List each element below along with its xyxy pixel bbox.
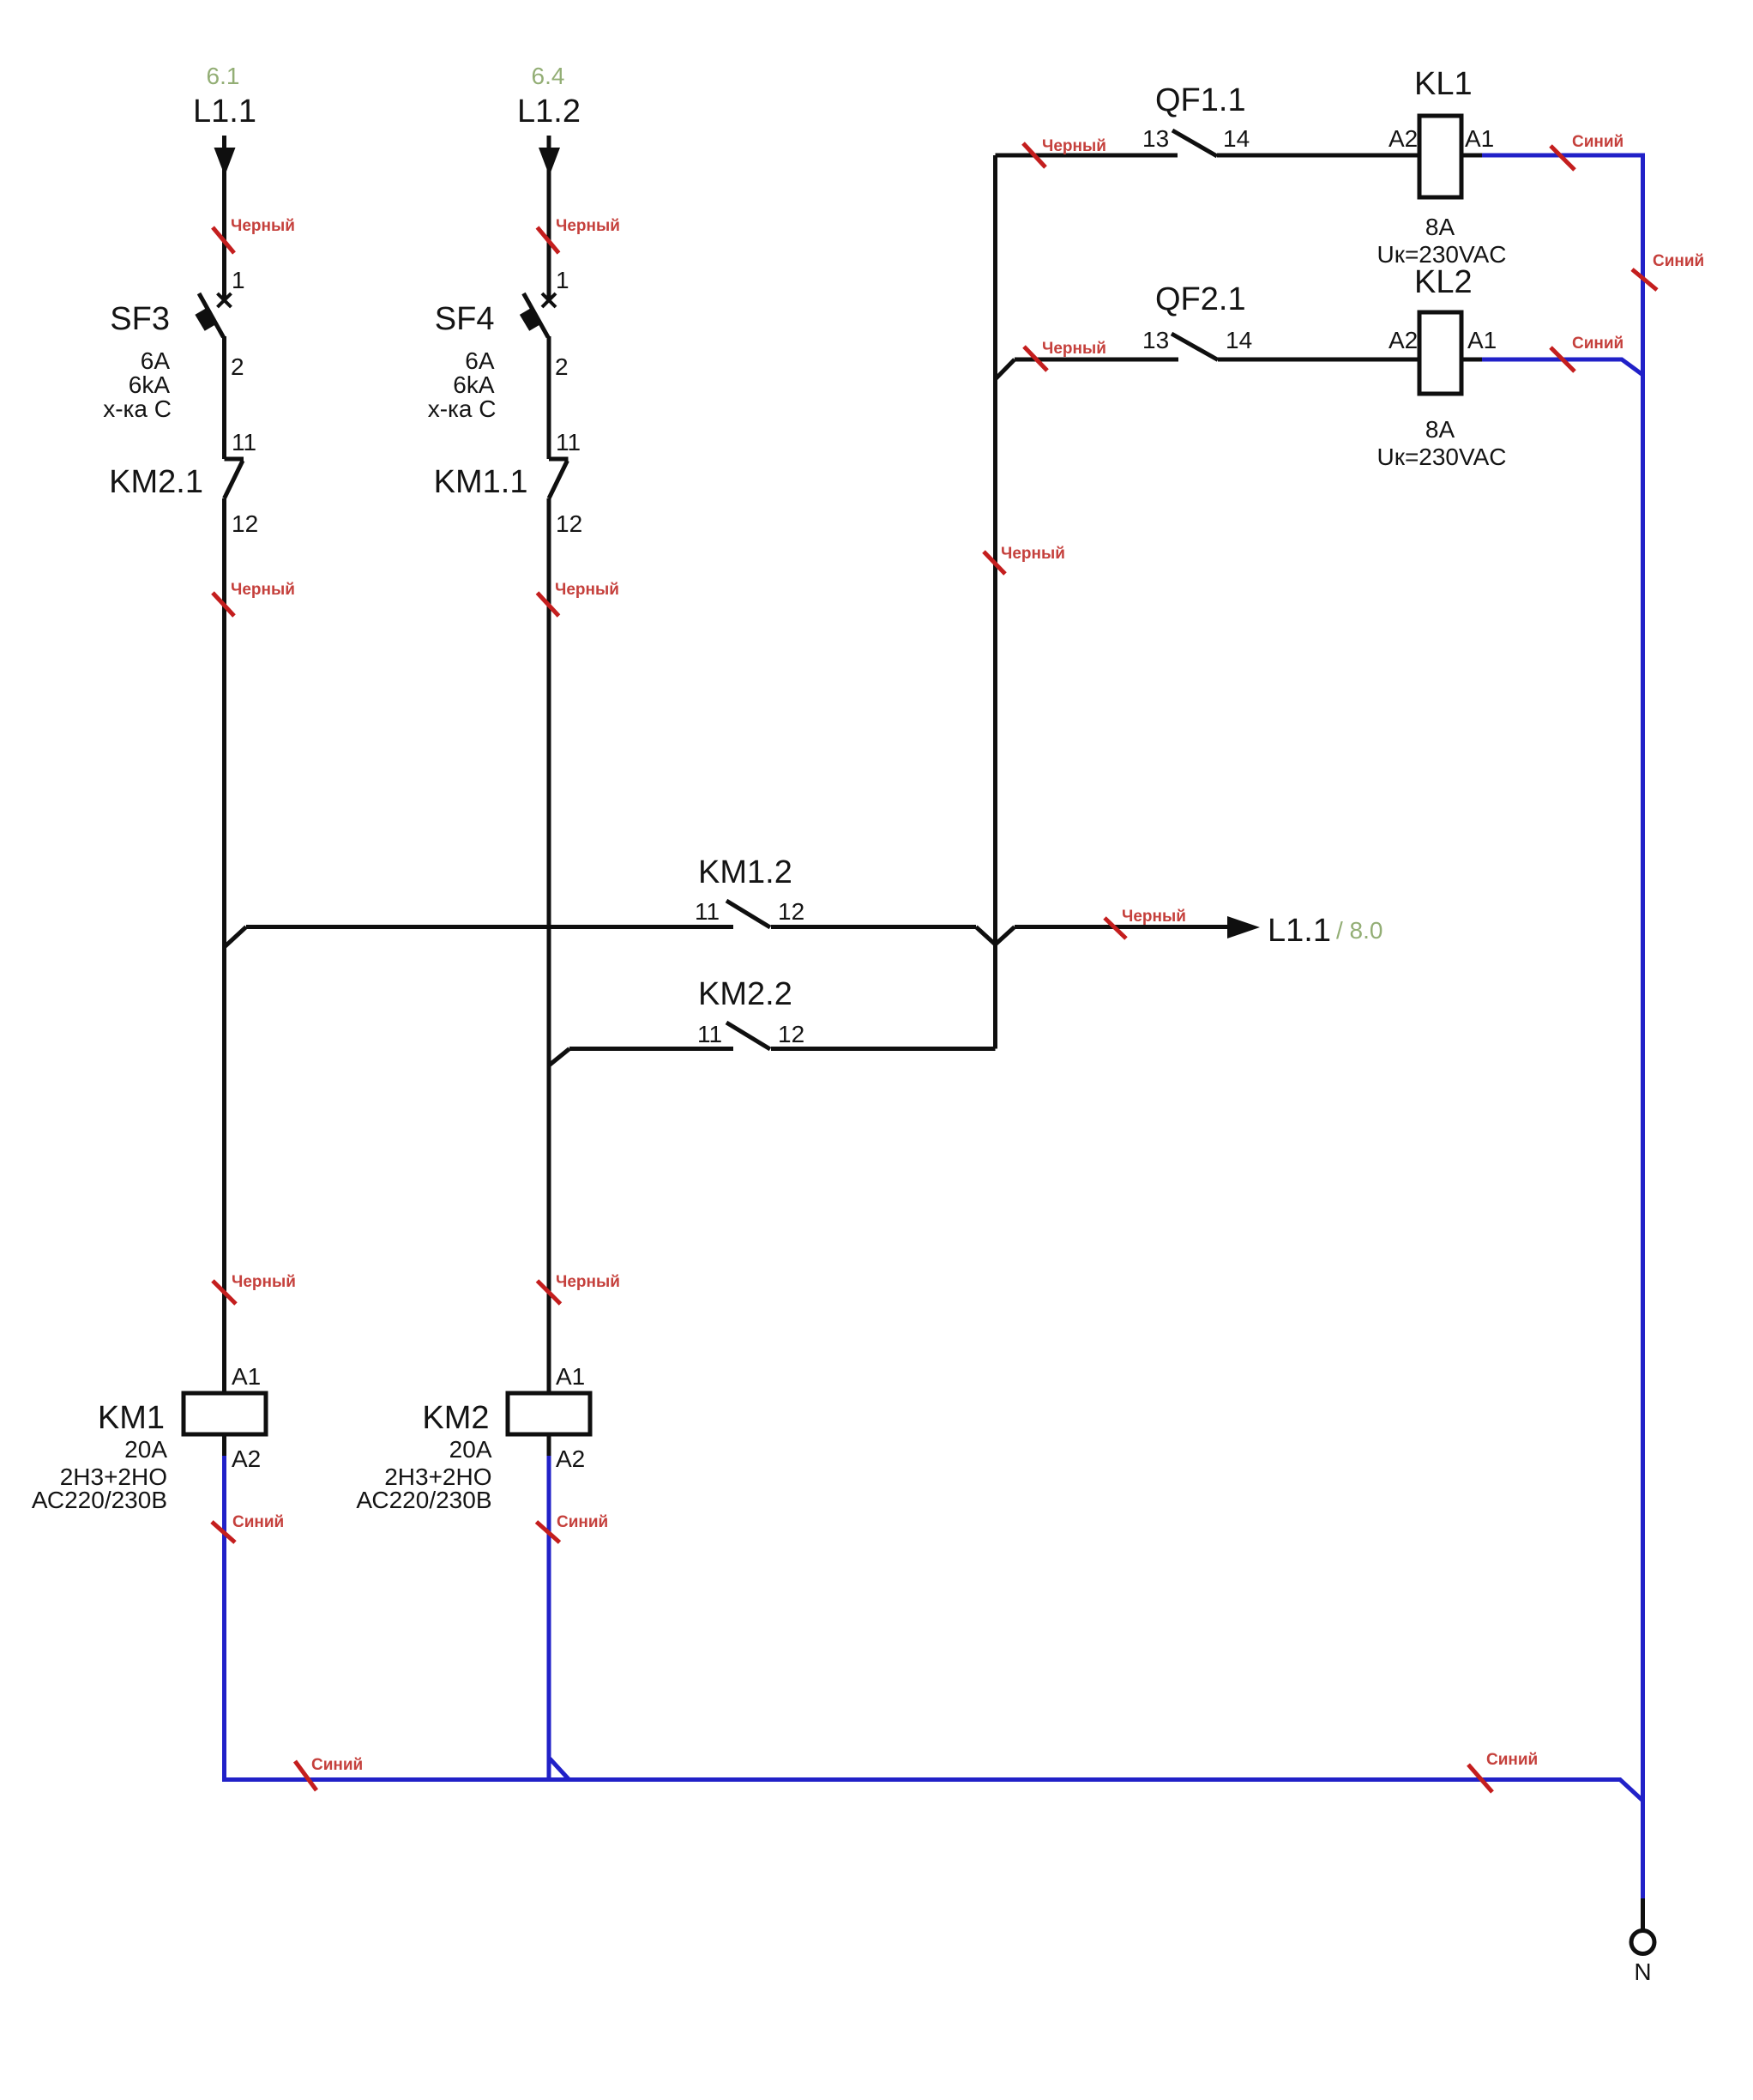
svg-text:Синий: Синий: [1653, 252, 1704, 270]
svg-text:Черный: Черный: [231, 581, 295, 599]
svg-text:х-ка С: х-ка С: [103, 395, 172, 422]
svg-text:QF1.1: QF1.1: [1155, 82, 1246, 118]
svg-text:Черный: Черный: [555, 581, 619, 599]
svg-text:13: 13: [1142, 327, 1169, 353]
svg-text:20A: 20A: [449, 1436, 492, 1463]
svg-text:Синий: Синий: [1572, 133, 1623, 151]
svg-text:Черный: Черный: [1001, 545, 1065, 563]
svg-text:SF3: SF3: [110, 301, 170, 337]
svg-text:6.1: 6.1: [207, 63, 240, 89]
svg-text:Черный: Черный: [1122, 908, 1186, 926]
svg-text:11: 11: [556, 429, 581, 456]
svg-text:L1.1: L1.1: [193, 94, 256, 130]
svg-text:Синий: Синий: [311, 1756, 363, 1774]
svg-text:13: 13: [1142, 125, 1169, 152]
svg-text:1: 1: [232, 267, 245, 293]
svg-text:A1: A1: [1465, 125, 1494, 152]
svg-text:KL2: KL2: [1414, 264, 1473, 300]
svg-text:х-ка С: х-ка С: [428, 395, 497, 422]
svg-text:11: 11: [695, 898, 720, 925]
svg-text:АС220/230В: АС220/230В: [32, 1487, 167, 1513]
svg-text:12: 12: [232, 510, 258, 537]
svg-text:A2: A2: [1389, 327, 1418, 353]
svg-text:14: 14: [1226, 327, 1252, 353]
svg-text:A1: A1: [232, 1363, 261, 1390]
svg-text:6kA: 6kA: [129, 371, 171, 398]
svg-text:12: 12: [556, 510, 582, 537]
svg-text:SF4: SF4: [435, 301, 495, 337]
svg-text:Черный: Черный: [1042, 340, 1106, 358]
svg-text:1: 1: [556, 267, 569, 293]
svg-text:KM2.2: KM2.2: [698, 976, 792, 1012]
svg-text:6kA: 6kA: [453, 371, 495, 398]
svg-text:A1: A1: [556, 1363, 585, 1390]
svg-text:Черный: Черный: [1042, 137, 1106, 155]
svg-text:/ 8.0: / 8.0: [1336, 917, 1383, 944]
svg-text:QF2.1: QF2.1: [1155, 281, 1246, 317]
svg-text:Синий: Синий: [1486, 1751, 1538, 1769]
svg-text:L1.1: L1.1: [1268, 913, 1331, 949]
svg-text:Черный: Черный: [232, 1273, 296, 1291]
svg-text:Синий: Синий: [557, 1513, 608, 1531]
svg-text:A2: A2: [1389, 125, 1418, 152]
svg-text:6A: 6A: [141, 347, 171, 374]
svg-text:A1: A1: [1467, 327, 1497, 353]
svg-text:Синий: Синий: [1572, 335, 1623, 353]
svg-text:Uк=230VAC: Uк=230VAC: [1376, 444, 1506, 470]
svg-text:Черный: Черный: [556, 217, 620, 235]
svg-text:KL1: KL1: [1414, 66, 1473, 102]
svg-text:Черный: Черный: [556, 1273, 620, 1291]
svg-text:KM1.2: KM1.2: [698, 854, 792, 890]
svg-text:Синий: Синий: [232, 1513, 284, 1531]
svg-text:20A: 20A: [124, 1436, 167, 1463]
svg-text:N: N: [1634, 1958, 1651, 1985]
svg-text:Черный: Черный: [231, 217, 295, 235]
svg-text:KM2: KM2: [422, 1400, 489, 1436]
svg-text:11: 11: [697, 1021, 722, 1047]
svg-text:KM1.1: KM1.1: [434, 464, 528, 500]
svg-text:6.4: 6.4: [532, 63, 565, 89]
svg-text:KM1: KM1: [98, 1400, 165, 1436]
svg-text:12: 12: [778, 1021, 804, 1047]
svg-text:L1.2: L1.2: [517, 94, 581, 130]
svg-text:6A: 6A: [465, 347, 495, 374]
svg-text:2: 2: [555, 353, 569, 380]
svg-text:A2: A2: [556, 1445, 585, 1472]
svg-text:12: 12: [778, 898, 804, 925]
svg-text:8A: 8A: [1425, 214, 1455, 240]
svg-text:A2: A2: [232, 1445, 261, 1472]
svg-text:2: 2: [231, 353, 244, 380]
svg-text:KM2.1: KM2.1: [109, 464, 203, 500]
svg-text:14: 14: [1223, 125, 1250, 152]
svg-text:АС220/230В: АС220/230В: [356, 1487, 491, 1513]
svg-text:8A: 8A: [1425, 416, 1455, 443]
svg-text:11: 11: [232, 429, 256, 456]
